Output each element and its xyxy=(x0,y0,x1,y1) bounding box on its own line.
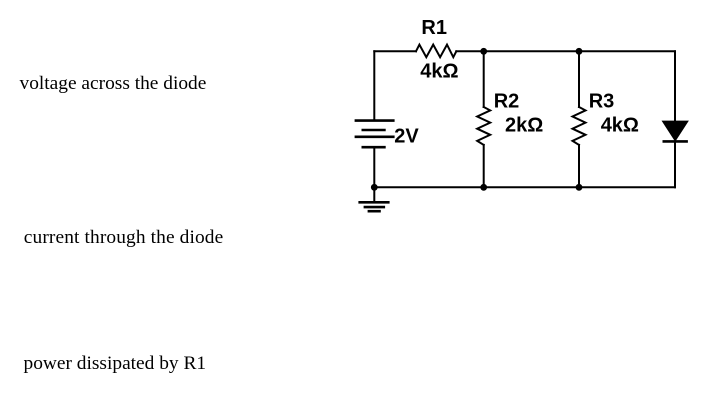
wire R3 top stub xyxy=(578,51,580,107)
wire diode top stub xyxy=(674,51,676,121)
battery V1 plate 1 (long, top) xyxy=(356,119,393,122)
wire top-left horizontal segment (battery to R1) xyxy=(374,50,416,52)
wire left vertical (top wire down to battery) xyxy=(373,51,375,119)
battery V1 plate 3 (long) xyxy=(356,136,393,139)
resistor R1 xyxy=(416,45,456,58)
node dot bottom at ground xyxy=(371,184,378,191)
question text: power dissipated by R1 xyxy=(24,353,207,375)
node dot bottom at R2 xyxy=(480,184,487,191)
diode D1 cathode bar xyxy=(664,140,687,143)
wire R2 bottom stub xyxy=(483,145,485,187)
wire left vertical (battery down to bottom wire) xyxy=(373,148,375,187)
svg-text:4kΩ: 4kΩ xyxy=(601,114,639,136)
node dot top at R3 xyxy=(576,48,583,55)
wire bottom horizontal xyxy=(374,186,675,188)
wire diode bottom stub xyxy=(674,141,676,187)
diode D1 triangle (anode) xyxy=(663,121,688,140)
node dot top at R2 xyxy=(480,48,487,55)
wire R3 bottom stub xyxy=(578,145,580,187)
battery V1 plate 4 (short, bottom) xyxy=(363,146,385,149)
svg-text:2V: 2V xyxy=(394,125,419,147)
svg-text:R3: R3 xyxy=(589,90,615,112)
svg-text:R2: R2 xyxy=(494,90,520,112)
wire R2 top stub xyxy=(483,51,485,107)
battery V1 plate 2 (short) xyxy=(363,129,385,132)
svg-text:4kΩ: 4kΩ xyxy=(420,60,458,82)
wire top horizontal segment (R1 to diode branch) xyxy=(456,50,675,52)
question text: voltage across the diode xyxy=(20,73,207,95)
svg-text:R1: R1 xyxy=(421,17,447,39)
resistor R2 xyxy=(477,107,490,145)
resistor R3 xyxy=(573,107,586,145)
question text: current through the diode xyxy=(24,227,224,249)
ground stub wire xyxy=(373,187,375,201)
ground symbol xyxy=(360,202,389,211)
node dot bottom at R3 xyxy=(576,184,583,191)
svg-text:2kΩ: 2kΩ xyxy=(505,114,543,136)
